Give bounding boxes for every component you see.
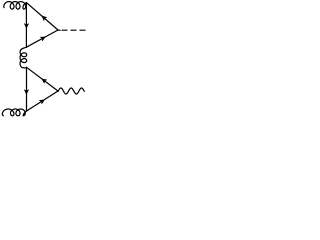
arrow on Va-V2 pointing up-right	[40, 37, 45, 41]
arrow on V1-Va pointing down	[24, 24, 28, 29]
gluon propagator g3 (vertical coil between triangles)	[20, 47, 27, 68]
arrow on V2-V1 pointing up-left	[42, 16, 47, 21]
fermion line Vb-V4 (bottom vertical quark segment)	[26, 67, 28, 111]
gluon g2 (bottom-left incoming gluon)	[2, 109, 26, 116]
arrow on V3-Vb pointing up-left	[42, 79, 47, 84]
arrow on V4-V3 pointing up-right	[39, 100, 44, 104]
fermion line V3-Vb (upper diagonal of bottom triangle)	[27, 67, 59, 91]
fermion line V4-V3 (lower diagonal of bottom triangle)	[27, 91, 59, 111]
fermion line Va-V2 (lower diagonal of top triangle)	[26, 30, 58, 47]
wavy photon propagator from V3 to right edge	[58, 88, 84, 94]
fermion line V1-Va (top vertical quark segment)	[25, 3, 27, 48]
fermion line V2-V1 (upper diagonal quark segment)	[26, 3, 58, 30]
dashed scalar propagator (Higgs) from V2 to right edge	[58, 29, 60, 31]
arrow on Vb-V4 pointing down	[24, 90, 28, 95]
gluon g1 (top-left incoming gluon)	[4, 2, 27, 10]
